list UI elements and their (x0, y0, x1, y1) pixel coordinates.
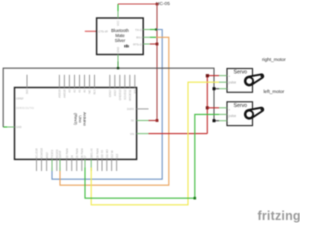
wire: green arduino GND to left rail (3, 126, 7, 128)
svg-text:D0/RX: D0/RX (127, 108, 134, 111)
svg-text:(Rev3): (Rev3) (74, 113, 79, 126)
svg-text:RX-I: RX-I (136, 36, 142, 40)
wire: black ground to servo1 ground pin (214, 88, 219, 90)
pin leg: servo1 ground (219, 88, 227, 90)
pin leg: arduino right 5V pin (137, 120, 149, 122)
wire: orange RX-I to arduino, down and left (60, 37, 169, 185)
svg-text:3V3: 3V3 (26, 89, 29, 94)
servo M1 (right_motor) body (227, 69, 253, 93)
junction green/orange at RX-I chain (155, 28, 157, 30)
svg-text:Servo: Servo (234, 70, 248, 76)
svg-text:SCK/D12: SCK/D12 (124, 89, 127, 100)
wire: red arduino 5V to red vertical (149, 120, 158, 122)
svg-text:D9 PWM: D9 PWM (97, 149, 100, 159)
servo M2 horn icon (245, 108, 263, 119)
wire: red VCC rail top horizontal (118, 3, 157, 5)
svg-text:IOREF: IOREF (16, 97, 24, 100)
wire: green from TX-O (150, 29, 156, 31)
junction red vertical / arduino right pin (156, 119, 159, 122)
svg-text:pulse: pulse (229, 114, 237, 118)
svg-text:AREF: AREF (46, 151, 49, 158)
pin leg: module RX-I (143, 36, 150, 38)
bluetooth module U1 body (97, 18, 144, 55)
junction module GND / ground bus (117, 67, 119, 69)
junction ground bus / servo2 ground (213, 119, 216, 122)
arduino bottom pin labels (36, 147, 119, 158)
junction at VCC rail corner (156, 3, 159, 6)
junction at RTS-O / red vertical (156, 43, 159, 46)
arduino top pin labels (26, 89, 137, 101)
svg-text:+: + (229, 74, 231, 78)
svg-text:D3 PWM: D3 PWM (66, 149, 69, 159)
svg-text:Servo: Servo (234, 103, 248, 109)
pin leg: module VCC (117, 11, 119, 18)
pin leg: arduino D0 (blue wire) (51, 159, 53, 171)
servo M2 (left_motor) body (227, 102, 253, 126)
svg-text:GND: GND (16, 126, 22, 129)
svg-text:D5 PWM: D5 PWM (76, 149, 79, 159)
wire: red servo1 power (207, 75, 219, 77)
svg-text:TXD/D1: TXD/D1 (51, 149, 54, 159)
svg-text:TX-O: TX-O (135, 28, 143, 32)
svg-text:VIN: VIN (130, 133, 134, 136)
svg-text:RTS-O: RTS-O (133, 42, 142, 46)
svg-text:D13: D13 (116, 153, 119, 158)
pin leg: servo1 power (219, 75, 227, 77)
pin leg: arduino right pin row1 (unconnected) (137, 108, 149, 110)
svg-text:D2/INT: D2/INT (59, 150, 62, 158)
svg-text:D12 MI: D12 MI (111, 150, 114, 158)
wire: green module GND down to bus (117, 62, 119, 69)
svg-text:MISO/D11: MISO/D11 (129, 89, 132, 101)
svg-text:A4/D18: A4/D18 (64, 89, 67, 98)
servo M1 horn icon (245, 74, 263, 85)
svg-text:VCC: VCC (116, 20, 120, 26)
svg-text:fritzing: fritzing (258, 209, 301, 223)
junction green wire corner at servo2 pulse (194, 197, 197, 200)
wire: black ground to servo2 ground pin (214, 120, 219, 122)
junction servo power node (206, 74, 209, 77)
svg-text:D0/RX0 D1/TX0: D0/RX0 D1/TX0 (16, 107, 35, 110)
wire: black ground bus up and across to servos (3, 68, 214, 127)
svg-text:CTS-I/F: CTS-I/F (98, 30, 108, 34)
pin leg: arduino D9 (green wire) (84, 159, 86, 171)
wire: blue TX-O to arduino bottom pin, vertical (52, 30, 162, 180)
svg-text:5V: 5V (131, 120, 134, 123)
pin leg: arduino D1 (orange wire) (59, 159, 61, 171)
svg-text:SCL/D19: SCL/D19 (36, 148, 39, 159)
svg-text:D8/CLK0: D8/CLK0 (90, 148, 93, 159)
pin leg: servo2 ground (219, 120, 227, 122)
wire: red RTS-O stub (150, 43, 157, 45)
svg-text:right_motor: right_motor (262, 57, 286, 62)
svg-text:+: + (229, 107, 231, 111)
svg-text:-: - (229, 120, 230, 124)
svg-text:AREF: AREF (114, 89, 117, 96)
pin leg: servo2 pulse (219, 113, 227, 115)
svg-text:RES: RES (94, 89, 97, 94)
junction servo2 power tap (206, 106, 209, 109)
pin leg: servo1 pulse (219, 81, 227, 83)
wire: red stub to CTS-I pin of bluetooth module (85, 30, 97, 32)
pin leg: arduino GND left (7, 126, 14, 128)
svg-text:SDA/D18: SDA/D18 (41, 147, 44, 158)
pin leg: module GND (117, 55, 119, 62)
wire: red vertical to arduino 5V pin (156, 4, 158, 121)
arduino bottom pin legs (37, 159, 117, 171)
svg-text:D10 SS: D10 SS (101, 150, 104, 159)
wire: yellow arduino D10 to servo1 pulse (91, 82, 219, 205)
svg-text:GND: GND (116, 47, 120, 53)
wire: green from RX-I (150, 36, 156, 38)
svg-text:-: - (229, 87, 230, 91)
wire: red vertical servo power rail (206, 76, 208, 134)
svg-text:A5/D19: A5/D19 (59, 89, 62, 98)
junction ground bus / servo1 ground (213, 87, 216, 90)
wire: green from VCC up (117, 4, 119, 11)
pin leg: module RTS-O (143, 43, 150, 45)
svg-text:N/C: N/C (89, 89, 92, 94)
pin leg: module TX-O (143, 29, 150, 31)
arduino top pin legs (27, 75, 135, 88)
wire: red servo2 power (207, 107, 219, 109)
svg-text:VIN: VIN (134, 89, 137, 93)
svg-text:D11 MO: D11 MO (106, 149, 109, 158)
svg-text:GND/D13: GND/D13 (119, 89, 122, 100)
arduino U2 body (15, 88, 137, 160)
svg-text:Silver: Silver (115, 38, 126, 43)
pin leg: servo2 power (219, 107, 227, 109)
svg-text:pulse: pulse (229, 81, 237, 85)
svg-text:IOREF: IOREF (109, 89, 112, 97)
wire: green arduino D9 to servo2 pulse (85, 114, 219, 198)
pin leg: arduino D10 (yellow wire) (90, 159, 92, 171)
pin leg: arduino right TX pin (137, 133, 149, 135)
wire: red arduino VIN to servo power rail (149, 133, 208, 135)
svg-text:left_motor: left_motor (264, 89, 285, 94)
